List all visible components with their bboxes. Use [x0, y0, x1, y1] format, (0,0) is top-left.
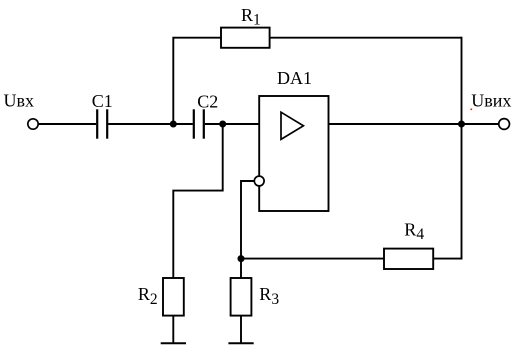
op-amp DA1 body [259, 96, 328, 211]
wire node A up to R1 [173, 38, 221, 124]
wire C1 to node A [108, 123, 173, 125]
node B junction [219, 121, 226, 128]
svg-text:R3: R3 [259, 284, 279, 308]
node C junction [238, 255, 245, 262]
right rail wire down [461, 37, 463, 259]
svg-text:Uвх: Uвх [4, 91, 35, 111]
wire node B elbow down to R2 [173, 124, 222, 278]
svg-text:R1: R1 [241, 5, 261, 29]
resistor R1 [221, 28, 270, 48]
output terminal Uvyx [499, 119, 510, 130]
wire node C to R4 [241, 258, 384, 260]
inverting input bubble [254, 176, 264, 186]
wire R2 to ground [172, 316, 174, 344]
ground bar R3 [228, 342, 253, 344]
node A junction [170, 121, 177, 128]
ground bar R2 [161, 342, 186, 344]
wire C2 to node B [205, 123, 223, 125]
wire op-amp output to output node [329, 123, 462, 125]
output node junction [458, 121, 465, 128]
wire R4 to right rail [433, 258, 462, 260]
svg-text:DA1: DA1 [277, 68, 312, 88]
resistor R2 [163, 278, 184, 316]
wire R3 to ground [240, 316, 242, 344]
svg-text:C1: C1 [92, 91, 113, 111]
input terminal Uvx [28, 119, 38, 129]
wire node A to C2 [173, 123, 193, 125]
op-amp DA1 triangle [281, 112, 303, 139]
wire input terminal to C1 [39, 123, 96, 125]
svg-text:Uвих: Uвих [471, 91, 511, 111]
resistor R4 [384, 249, 433, 269]
wire output node to output terminal [462, 123, 499, 125]
wire R1 to right rail corner [270, 37, 462, 39]
wire node C to R3 [240, 259, 242, 278]
capacitor C2 [194, 109, 204, 138]
svg-text:R2: R2 [138, 284, 158, 308]
resistor R3 [231, 278, 252, 316]
wire bubble to node C [241, 181, 254, 259]
wire node B to op-amp input [223, 123, 259, 125]
svg-text:R4: R4 [404, 219, 424, 243]
capacitor C1 [97, 109, 107, 138]
svg-text:C2: C2 [197, 91, 218, 111]
red speck artifact [471, 109, 473, 111]
